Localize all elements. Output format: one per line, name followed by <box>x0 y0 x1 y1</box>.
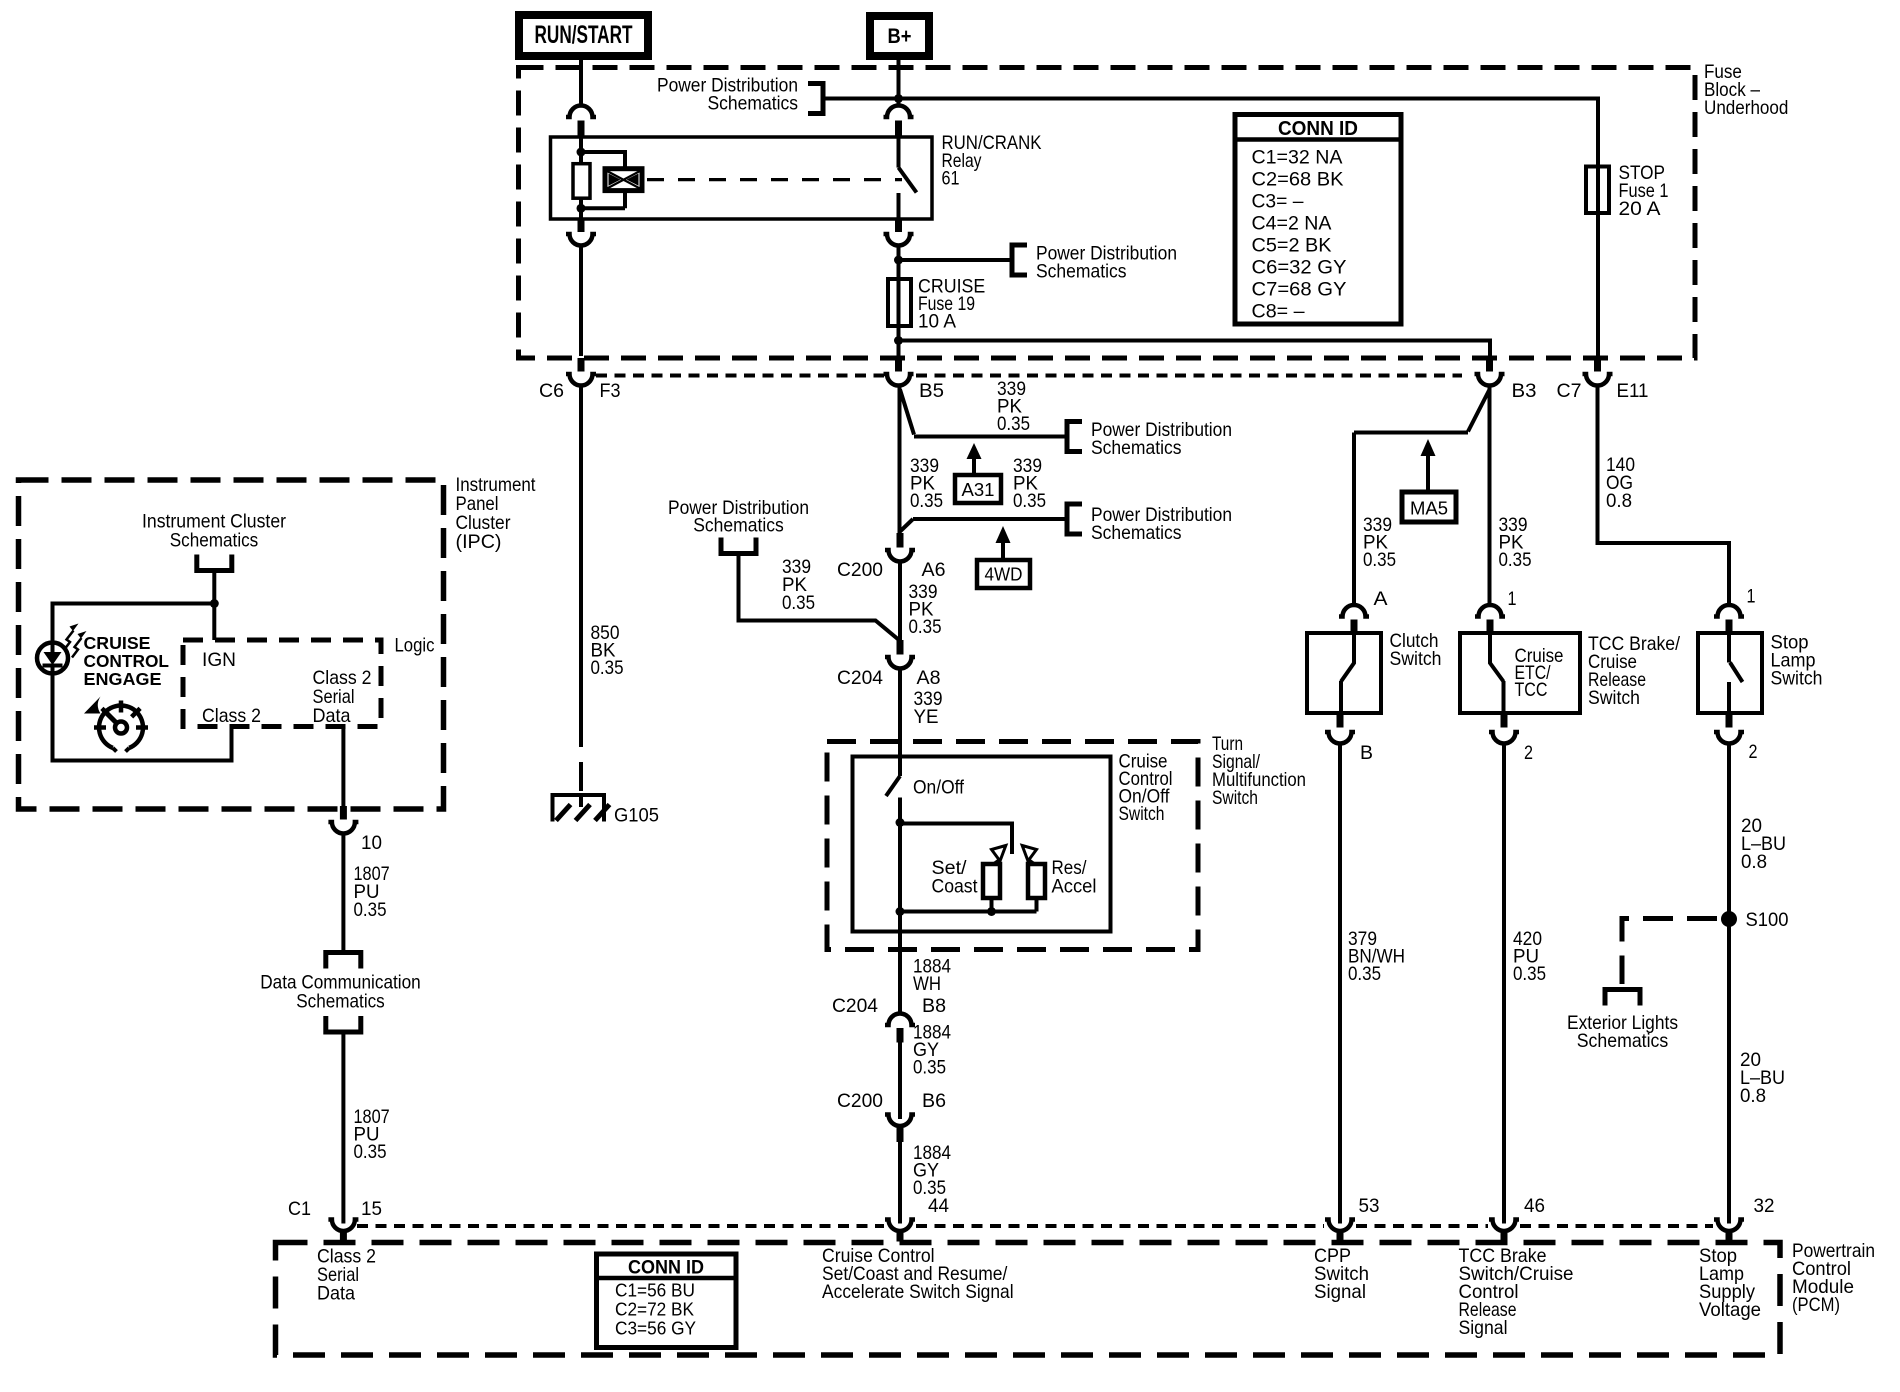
clutch pin B label <box>1360 742 1373 764</box>
relay RUN/CRANK 61 box <box>551 137 933 219</box>
resistor res/accel <box>1028 864 1045 898</box>
relay actuation dashed link <box>647 178 902 181</box>
wire to set/coast contact <box>900 824 1012 855</box>
svg-text:Switch: Switch <box>1119 803 1165 825</box>
stop lamp switch label <box>1771 632 1823 690</box>
power feed label RUN/START <box>519 15 648 56</box>
svg-text:C2=68 BK: C2=68 BK <box>1252 169 1344 191</box>
svg-text:Schematics: Schematics <box>708 93 799 115</box>
svg-text:0.35: 0.35 <box>997 413 1030 435</box>
powertrain control module dashed box <box>276 1243 1781 1356</box>
grid ref MA5 arrow <box>1421 439 1436 492</box>
svg-text:G105: G105 <box>614 805 659 827</box>
fuse F1 STOP <box>1586 166 1609 214</box>
off-page ref power distribution (C204 feed) <box>668 497 809 554</box>
svg-text:A31: A31 <box>962 479 995 500</box>
svg-text:IGN: IGN <box>202 649 236 671</box>
wire label 339 YE <box>914 688 943 728</box>
wire label 20 L-BU 0.8 (lower) <box>1740 1049 1785 1107</box>
connector C204/B8 <box>885 1014 915 1043</box>
off-page ref power distribution (4WD) <box>1067 504 1232 544</box>
IPC pin 10 label <box>361 832 382 854</box>
svg-text:Switch: Switch <box>1390 648 1442 670</box>
relay switch contact lower <box>897 193 901 219</box>
clutch switch label <box>1390 630 1442 670</box>
svg-text:Accelerate Switch Signal: Accelerate Switch Signal <box>822 1281 1014 1303</box>
relay switch blade <box>899 168 917 193</box>
wire label 1884 GY 0.35 (B6-PCM) <box>913 1142 951 1199</box>
wire label 1807 PU 0.35 (upper) <box>354 863 390 921</box>
grid ref A31 box <box>955 475 1001 503</box>
svg-text:10 A: 10 A <box>918 311 956 333</box>
switch set/coast label <box>932 857 979 898</box>
wire label 339 PK 0.35 (C204 feed) <box>782 556 815 614</box>
svg-text:1: 1 <box>1508 588 1517 610</box>
svg-text:CONN ID: CONN ID <box>628 1257 704 1279</box>
svg-text:Schematics: Schematics <box>296 991 385 1013</box>
clutch pin A label <box>1374 588 1388 610</box>
svg-text:(PCM): (PCM) <box>1792 1294 1840 1316</box>
svg-text:F3: F3 <box>600 380 621 402</box>
wire label 1884 WH <box>913 956 951 996</box>
wire 850 BK to ground <box>579 386 583 796</box>
node coil bottom junction <box>577 204 586 213</box>
contact arrow res/accel <box>1022 846 1036 866</box>
svg-text:0.8: 0.8 <box>1741 851 1767 873</box>
connector C200/A6 <box>885 533 915 562</box>
svg-text:0.35: 0.35 <box>1499 549 1532 571</box>
wire B6 to PCM pin 44 <box>898 1142 902 1224</box>
logic pin IGN label <box>202 649 236 671</box>
inline connector dotted line (C2) <box>596 374 1462 378</box>
wire RUN/START to relay <box>579 56 583 106</box>
relay label <box>942 132 1042 190</box>
wire label 140 OG 0.8 <box>1606 454 1635 512</box>
resistor relay coil suppression <box>573 164 590 199</box>
wire 850 BK label <box>591 622 624 679</box>
svg-text:Schematics: Schematics <box>1091 522 1182 544</box>
stop lamp switch blade <box>1729 633 1743 713</box>
svg-text:10: 10 <box>361 832 382 854</box>
svg-text:C3= –: C3= – <box>1252 191 1304 213</box>
svg-text:WH: WH <box>913 973 941 995</box>
connector PCM pin 32 <box>1714 1220 1744 1242</box>
svg-text:C6=32 GY: C6=32 GY <box>1252 257 1347 279</box>
pcm pin 44 label <box>928 1195 949 1217</box>
svg-text:15: 15 <box>361 1198 382 1220</box>
IPC label <box>456 474 537 553</box>
node splice S100 <box>1721 911 1737 927</box>
wire A8 to on/off switch <box>898 669 902 776</box>
connector pin relay coil (RUN/START side) <box>566 106 596 137</box>
svg-text:44: 44 <box>928 1195 949 1217</box>
connector stop lamp pin 1 <box>1714 605 1744 633</box>
svg-text:Class 2: Class 2 <box>202 705 261 727</box>
wire coil parallel branch bottom <box>581 191 625 209</box>
off-page ref power distribution (fuse row) <box>1012 243 1177 283</box>
connector B3/C7/E11 labels <box>1512 380 1649 402</box>
svg-text:2: 2 <box>1524 742 1533 764</box>
svg-text:Switch: Switch <box>1588 687 1640 709</box>
connector stop lamp pin 2 <box>1714 714 1744 744</box>
connector clutch pin A <box>1339 605 1369 633</box>
pcm pin 46 label <box>1524 1195 1545 1217</box>
connector C200/B6 labels <box>837 1090 946 1112</box>
wire cruise switch to PCM pin 46 <box>1502 745 1506 1224</box>
pcm pin 32 label <box>1754 1195 1775 1217</box>
svg-text:0.35: 0.35 <box>591 657 624 679</box>
svg-text:0.35: 0.35 <box>354 899 387 921</box>
svg-text:Schematics: Schematics <box>693 515 784 537</box>
connector IPC pin 10 <box>328 806 358 834</box>
svg-text:B+: B+ <box>888 25 912 48</box>
stop lamp pin 1 label <box>1747 586 1756 608</box>
connector cruise switch pin 2 <box>1489 714 1519 744</box>
svg-text:B8: B8 <box>922 995 946 1017</box>
svg-text:S100: S100 <box>1746 909 1789 931</box>
clutch switch box <box>1307 633 1381 713</box>
connector C204/A8 labels <box>837 667 941 689</box>
svg-text:0.35: 0.35 <box>1013 490 1046 512</box>
relay switch contact upper <box>897 137 901 168</box>
wire class2 serial data out <box>341 727 345 807</box>
svg-text:C1=56 BU: C1=56 BU <box>615 1280 695 1301</box>
wire power dist to C204 <box>739 556 900 640</box>
connector C6/F3 labels <box>539 380 621 402</box>
svg-text:0.35: 0.35 <box>1513 963 1546 985</box>
wire branch to power dist bracket <box>899 258 1011 262</box>
wire branch 4WD row <box>913 517 1065 521</box>
cruise switch pin 1 label <box>1508 588 1517 610</box>
wire junction to LED branch <box>53 604 215 643</box>
svg-text:Coast: Coast <box>932 876 979 898</box>
wire coil parallel branch top <box>581 152 625 169</box>
svg-text:CRUISE: CRUISE <box>84 633 151 653</box>
wire label 379 BN/WH 0.35 <box>1348 928 1405 985</box>
node junction B+ feed <box>894 94 903 103</box>
svg-text:Switch: Switch <box>1771 668 1823 690</box>
wire dashed to exterior lights <box>1622 919 1717 985</box>
off-page ref instrument cluster schematics <box>142 511 286 571</box>
pcm pin CPP switch signal label <box>1314 1245 1369 1303</box>
fuse F19 label <box>918 276 985 333</box>
connector C204/A8 <box>885 640 915 669</box>
svg-text:0.8: 0.8 <box>1606 490 1632 512</box>
svg-text:A: A <box>1374 588 1388 610</box>
fuse block label <box>1704 61 1788 119</box>
connector B5 <box>884 358 914 386</box>
off-page ref data communication schematics <box>260 953 421 1033</box>
node resistor rail junctions <box>896 907 997 916</box>
connector C200/A6 labels <box>837 559 946 581</box>
connector pin relay switch (B+ side) <box>884 106 914 137</box>
connector table CONN ID (PCM) <box>597 1254 737 1348</box>
svg-text:C8= –: C8= – <box>1252 301 1305 323</box>
wire pin10 to data comm ref <box>341 834 345 951</box>
svg-text:A8: A8 <box>917 667 941 689</box>
logic dashed box <box>183 640 381 727</box>
svg-text:Logic: Logic <box>395 635 435 657</box>
svg-text:C1=32 NA: C1=32 NA <box>1252 147 1343 169</box>
wire relay out right <box>897 246 901 357</box>
svg-text:0.35: 0.35 <box>1363 549 1396 571</box>
svg-text:C3=56 GY: C3=56 GY <box>615 1318 696 1339</box>
svg-text:0.35: 0.35 <box>782 592 815 614</box>
cruise control on/off switch box <box>853 757 1111 932</box>
cruise on/off switch label <box>1119 751 1173 826</box>
svg-text:C6: C6 <box>539 380 564 402</box>
TCC brake cruise release switch label <box>1588 633 1681 709</box>
wire label 1884 GY 0.35 (B8-B6) <box>913 1022 951 1079</box>
off-page ref power distribution (top) <box>657 75 823 115</box>
connector table CONN ID (fuse block) <box>1235 115 1401 325</box>
wire LED to class2 loop <box>53 674 232 761</box>
svg-text:CONN ID: CONN ID <box>1278 117 1358 140</box>
svg-text:Schematics: Schematics <box>1577 1030 1669 1052</box>
svg-text:MA5: MA5 <box>1410 498 1448 519</box>
connector B5 label <box>919 380 944 402</box>
cruise ETC/TCC switch box <box>1460 633 1580 713</box>
node IGN junction <box>210 599 219 608</box>
logic class 2 serial data label <box>313 667 372 727</box>
cruise switch pin 2 label <box>1524 742 1533 764</box>
svg-text:B3: B3 <box>1512 380 1537 402</box>
cruise control engage label <box>84 633 170 689</box>
pcm pin 53 label <box>1359 1195 1380 1217</box>
svg-text:Schematics: Schematics <box>170 530 259 552</box>
wire cluster ref to IGN <box>212 573 216 640</box>
grid ref A31 arrow <box>967 443 982 475</box>
power feed label B+ <box>870 16 929 56</box>
wire relay coil top <box>579 137 583 164</box>
svg-text:C7: C7 <box>1557 380 1582 402</box>
off-page ref exterior lights schematics <box>1567 990 1678 1053</box>
node coil top junction <box>577 148 586 157</box>
svg-text:C204: C204 <box>832 995 878 1017</box>
svg-text:46: 46 <box>1524 1195 1545 1217</box>
svg-text:1: 1 <box>1747 586 1756 608</box>
wire label 339 PK 0.35 (clutch) <box>1363 514 1396 571</box>
connector PCM pin 15 <box>328 1220 358 1242</box>
wire branch diagonal to A31 row <box>900 390 914 435</box>
ground G105 label <box>614 805 659 827</box>
wire stop lamp to PCM pin 32 <box>1727 745 1731 1224</box>
wire resistor bottoms rail <box>900 898 1037 912</box>
connector PCM pin 46 <box>1489 1220 1519 1242</box>
wire clutch feed drop <box>1352 433 1356 606</box>
PCM label <box>1792 1240 1875 1316</box>
svg-text:RUN/START: RUN/START <box>535 21 633 49</box>
svg-text:Schematics: Schematics <box>1091 437 1182 459</box>
turn signal multifunction switch dashed box <box>827 742 1198 950</box>
svg-text:C200: C200 <box>837 559 883 581</box>
svg-text:C7=68 GY: C7=68 GY <box>1252 279 1347 301</box>
turn signal switch label <box>1212 733 1306 809</box>
svg-text:ENGAGE: ENGAGE <box>84 669 162 689</box>
svg-text:Switch: Switch <box>1212 787 1258 809</box>
node cruise fuse bottom junction <box>894 336 903 345</box>
connector PCM pin 44 <box>885 1220 915 1242</box>
wire label 339 PK 0.35 (upper branch) <box>997 378 1030 435</box>
svg-text:Underhood: Underhood <box>1704 97 1788 119</box>
wire label 339 PK 0.35 (cruise sw) <box>1499 514 1532 571</box>
svg-text:0.8: 0.8 <box>1740 1085 1766 1107</box>
svg-text:TCC: TCC <box>1515 679 1548 701</box>
logic label <box>395 635 435 657</box>
grid ref 4WD arrow <box>996 526 1011 560</box>
ground G105 <box>551 793 610 822</box>
pcm pin cruise control set/coast label <box>822 1245 1014 1303</box>
wire clutch to PCM pin 53 <box>1338 745 1342 1224</box>
svg-text:C204: C204 <box>837 667 883 689</box>
svg-text:2: 2 <box>1749 741 1758 763</box>
wire top feed to STOP fuse <box>825 99 1598 167</box>
switch on/off blade <box>886 776 900 823</box>
logic pin Class 2 label <box>202 705 261 727</box>
wire branch diagonal 4WD row <box>900 519 913 532</box>
gauge cruise icon <box>84 697 148 752</box>
svg-text:Schematics: Schematics <box>1036 261 1127 283</box>
svg-text:0.35: 0.35 <box>910 490 943 512</box>
connector B3 <box>1475 358 1505 386</box>
svg-text:Data: Data <box>313 705 351 727</box>
svg-text:B5: B5 <box>919 380 944 402</box>
switch on/off label <box>913 777 965 799</box>
fuse F19 CRUISE <box>888 279 911 326</box>
svg-text:0.35: 0.35 <box>909 616 942 638</box>
svg-text:C200: C200 <box>837 1090 883 1112</box>
fuse block underhood dashed box <box>519 68 1696 359</box>
pcm pin class 2 serial data label <box>317 1246 376 1305</box>
svg-text:0.35: 0.35 <box>354 1141 387 1163</box>
svg-text:E11: E11 <box>1617 380 1649 402</box>
connector PCM pin 53 <box>1325 1220 1355 1242</box>
wire clutch feed row <box>1354 431 1468 435</box>
connector pin relay out left <box>566 219 596 246</box>
wire cruise fuse output to B3 <box>899 341 1491 357</box>
wire E11 to stop lamp switch <box>1598 386 1730 606</box>
cruise switch blade <box>1490 633 1504 713</box>
wire label 339 PK 0.35 (main) <box>910 455 943 512</box>
svg-text:32: 32 <box>1754 1195 1775 1217</box>
PCM pin C1/15 labels <box>288 1198 382 1220</box>
cruise ETC/TCC inner label <box>1515 645 1564 701</box>
connector clutch pin B <box>1325 714 1355 744</box>
off-page ref power distribution (A31) <box>1067 419 1232 459</box>
svg-text:C4=2 NA: C4=2 NA <box>1252 213 1332 235</box>
wire B5 down to C200 <box>898 386 902 534</box>
stop lamp pin 2 label <box>1749 741 1758 763</box>
splice S100 label <box>1746 909 1789 931</box>
svg-text:C2=72 BK: C2=72 BK <box>615 1299 695 1320</box>
wire B+ to relay <box>897 56 901 106</box>
clutch switch blade <box>1341 633 1354 713</box>
grid ref MA5 box <box>1402 492 1456 522</box>
wire B3 diagonal to clutch row <box>1468 390 1490 432</box>
contact arrow set/coast <box>992 846 1006 866</box>
svg-text:YE: YE <box>914 706 939 728</box>
instrument panel cluster dashed box <box>19 480 444 809</box>
wire label 420 PU 0.35 <box>1513 928 1546 985</box>
node cruise fuse top junction <box>894 256 903 265</box>
svg-text:4WD: 4WD <box>985 564 1023 585</box>
wire B8 to B6 <box>898 1042 902 1119</box>
connector E11 <box>1583 358 1613 386</box>
svg-text:Signal: Signal <box>1459 1317 1508 1339</box>
pcm inline connector dotted line <box>357 1224 1713 1228</box>
svg-text:A6: A6 <box>922 559 946 581</box>
svg-text:C1: C1 <box>288 1198 311 1220</box>
wire label 339 PK 0.35 (A6) <box>909 581 942 638</box>
wire B3 down to cruise switch <box>1488 386 1492 606</box>
svg-text:Signal: Signal <box>1314 1281 1366 1303</box>
resistor set/coast <box>983 864 1000 898</box>
fuse F1 label <box>1619 162 1669 220</box>
wire branch A31 row <box>914 435 1065 439</box>
connector C204/B8 labels <box>832 995 946 1017</box>
wire label 20 L-BU 0.8 (upper) <box>1741 815 1786 873</box>
svg-text:Voltage: Voltage <box>1699 1299 1761 1321</box>
svg-text:0.35: 0.35 <box>1348 963 1381 985</box>
svg-text:(IPC): (IPC) <box>456 531 502 553</box>
wire relay coil bottom <box>579 198 583 219</box>
connector C6/F3 <box>566 358 596 386</box>
svg-text:Accel: Accel <box>1052 876 1097 898</box>
svg-text:B: B <box>1360 742 1373 764</box>
wire relay out left to C6 <box>579 246 583 357</box>
svg-text:C5=2 BK: C5=2 BK <box>1252 235 1332 257</box>
wire A6 to A8 <box>898 562 902 640</box>
relay coil (X-box symbol) <box>605 169 642 191</box>
LED cruise indicator <box>37 624 87 674</box>
svg-text:0.35: 0.35 <box>913 1057 946 1079</box>
svg-text:On/Off: On/Off <box>913 777 965 799</box>
wire label 1807 PU 0.35 (lower) <box>354 1106 390 1163</box>
wire data comm to PCM pin 15 <box>341 1035 345 1224</box>
svg-text:CONTROL: CONTROL <box>84 651 170 671</box>
wire STOP fuse to E11 <box>1596 213 1600 356</box>
grid ref 4WD box <box>977 560 1030 588</box>
connector C200/B6 <box>885 1115 915 1143</box>
wire label 339 PK 0.35 (4WD branch) <box>1013 455 1046 512</box>
stop lamp switch box <box>1698 633 1762 713</box>
pcm pin stop lamp supply label <box>1699 1245 1761 1321</box>
svg-text:B6: B6 <box>922 1090 946 1112</box>
svg-text:61: 61 <box>942 168 960 190</box>
node on/off output junction <box>896 818 905 827</box>
connector pin relay out right <box>884 219 914 246</box>
svg-text:53: 53 <box>1359 1195 1380 1217</box>
connector cruise switch pin 1 <box>1475 605 1505 633</box>
wire on/off output <box>898 823 902 1014</box>
svg-text:20 A: 20 A <box>1619 198 1661 220</box>
svg-text:Data: Data <box>317 1282 355 1304</box>
switch res/accel label <box>1052 857 1097 898</box>
pcm pin TCC brake label <box>1459 1245 1574 1339</box>
